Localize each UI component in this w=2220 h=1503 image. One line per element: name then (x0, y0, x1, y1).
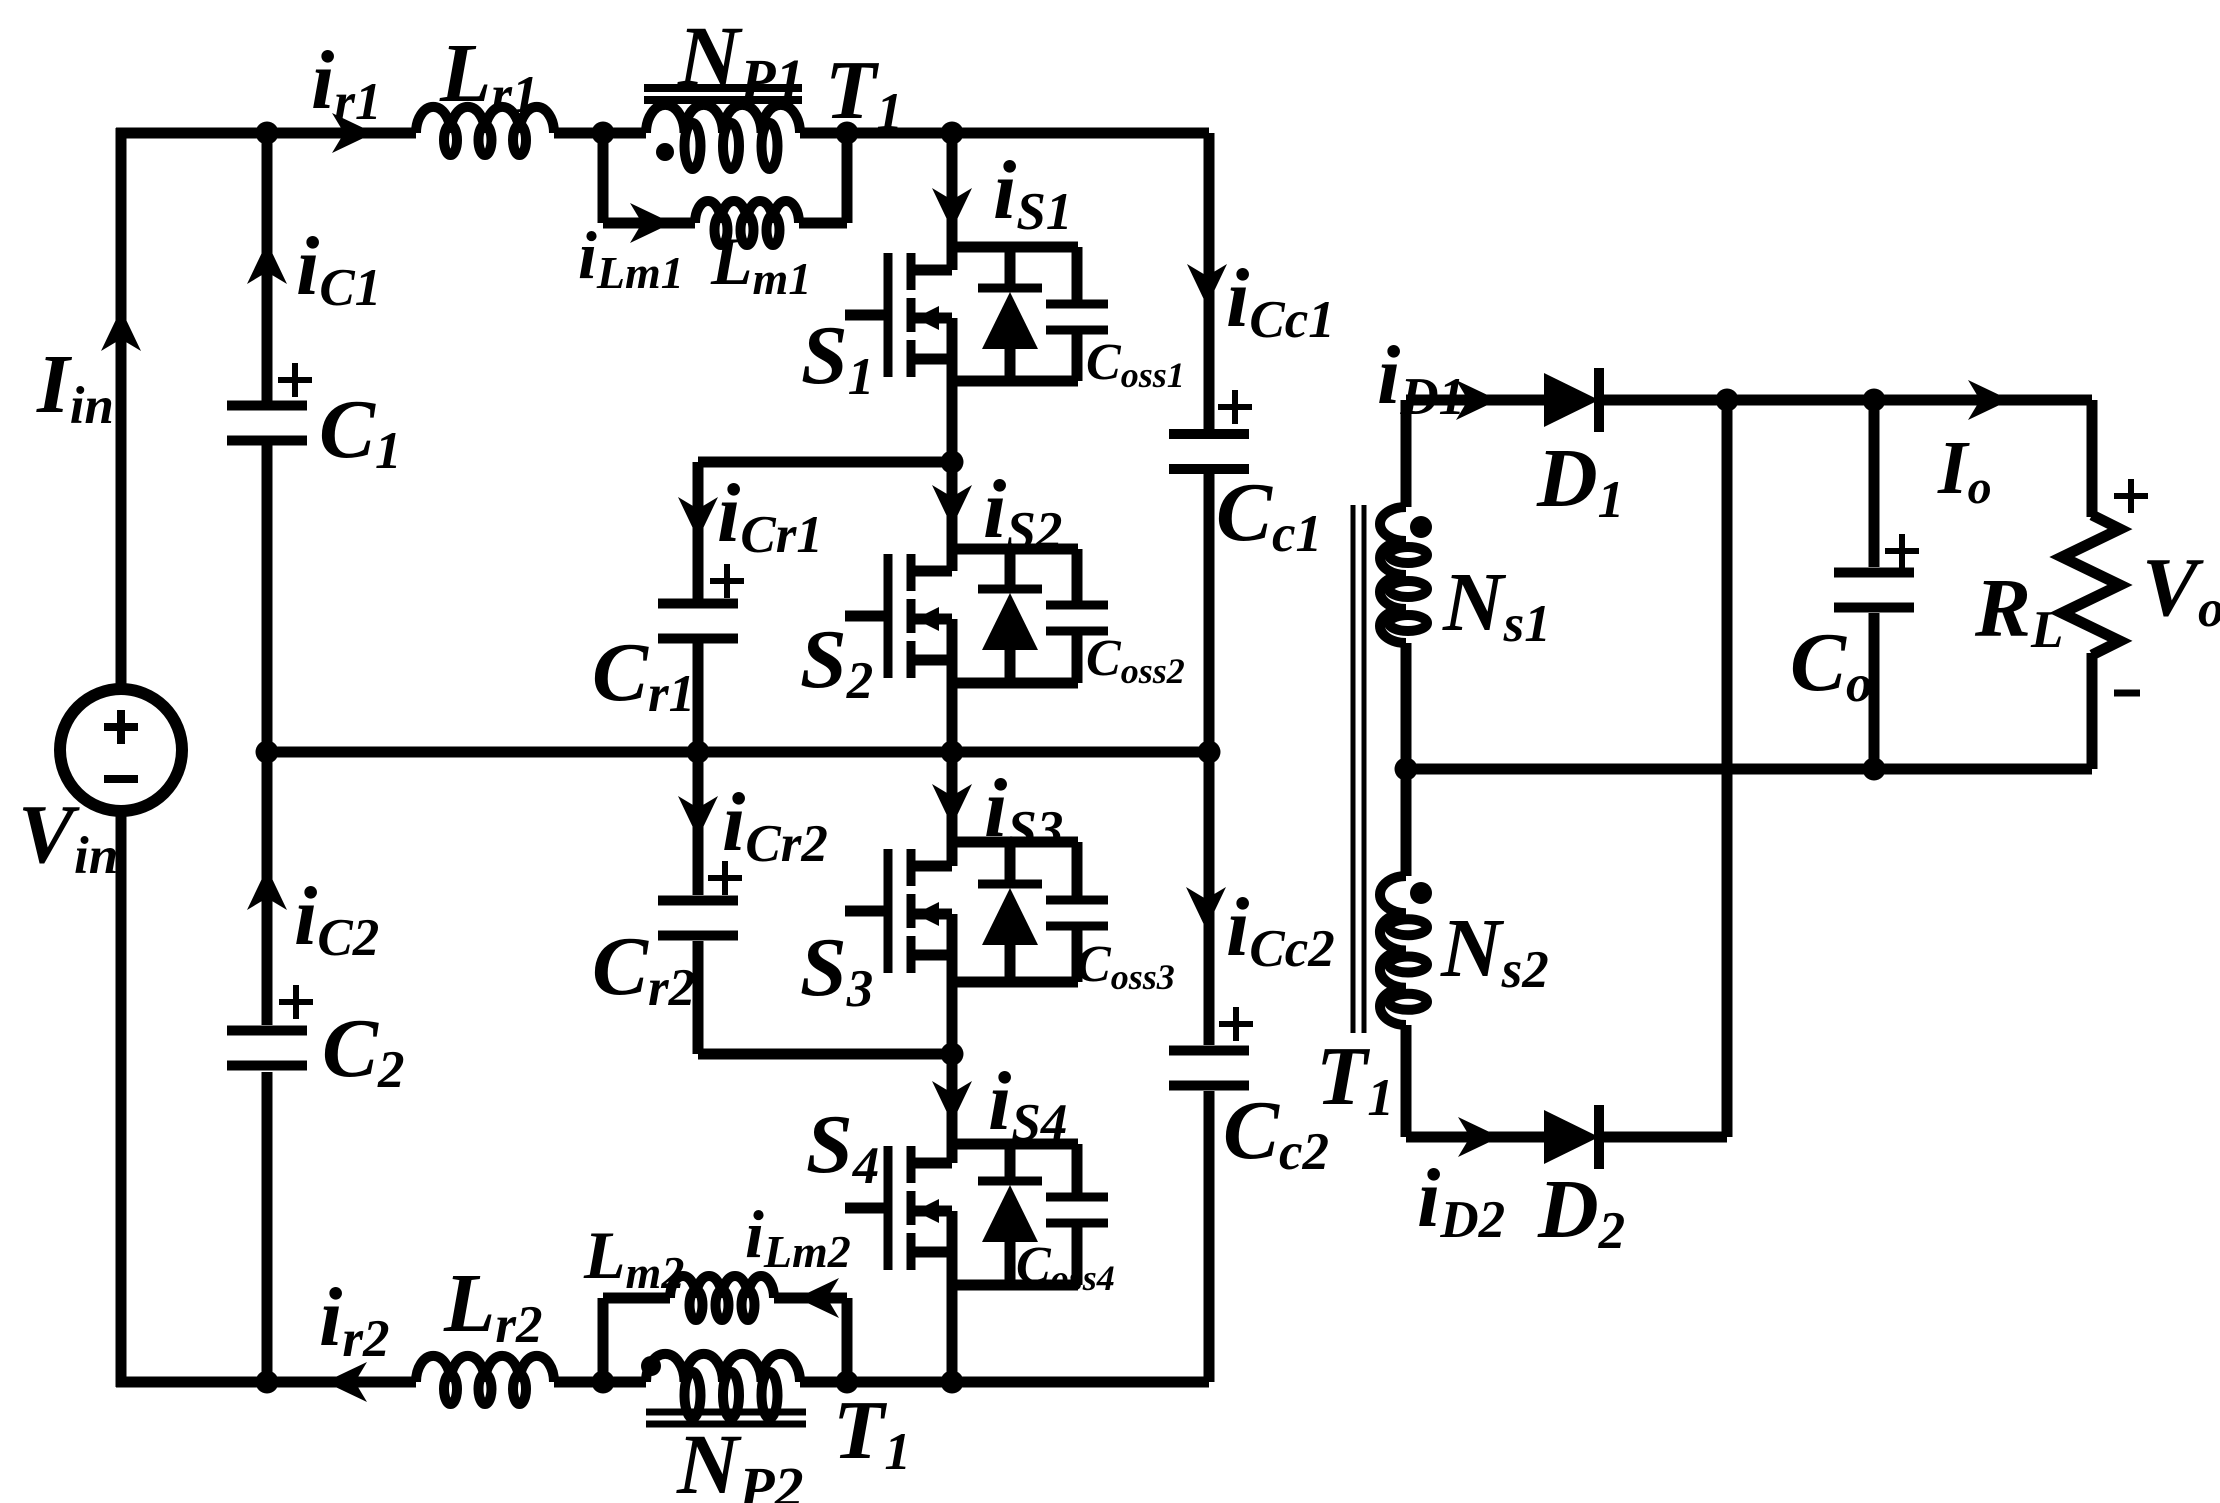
wire S4 drain lead (947, 1054, 958, 1163)
transformer secondary winding Ns1 (1380, 507, 1427, 643)
current arrow iS1 (932, 188, 972, 230)
transistor S4 (MOSFET) (845, 1146, 952, 1270)
label T1 top (825, 44, 903, 141)
current arrow iCr1 (678, 497, 718, 539)
node top-C1 (256, 122, 279, 145)
node mid-Cc (1198, 741, 1221, 764)
inductor Lm2 (670, 1276, 774, 1320)
node bottom-Lm2 right (836, 1371, 859, 1394)
transistor S3 (MOSFET) (845, 849, 952, 973)
capacitor Cc1 (1169, 390, 1252, 469)
wire Lm1 branch left horizontal (603, 218, 695, 229)
label ir2 (319, 1271, 389, 1368)
capacitor C1 (227, 363, 312, 441)
current arrow iCc2 (1186, 887, 1226, 929)
label C2 (322, 1002, 405, 1099)
node mid-C column (256, 741, 279, 764)
wire S3 cell top rail (952, 837, 1078, 848)
label iS1 (993, 144, 1072, 241)
label iCr2 (722, 776, 828, 873)
label iC1 (296, 220, 381, 317)
capacitor Cr1 (658, 564, 744, 639)
wire S1 cell top rail (952, 242, 1078, 253)
wire D1 cathode row (1600, 395, 2092, 406)
transformer T1 primary winding NP2 (646, 1354, 800, 1418)
diode D1 (1544, 368, 1599, 432)
wire Lm2 branch left vertical (598, 1298, 609, 1382)
wire output return rail (1406, 764, 2092, 775)
body diode of S2 (978, 549, 1042, 683)
label S3 (800, 921, 873, 1018)
transistor S1 (MOSFET) (845, 253, 952, 377)
wire S1 cell bottom rail (952, 376, 1078, 387)
current arrow Io (1968, 380, 2010, 420)
label Ns2 (1440, 902, 1549, 999)
label D1 (1536, 432, 1624, 529)
label Io (1937, 426, 1992, 514)
body diode of S3 (978, 842, 1042, 982)
current arrow Iin (101, 309, 141, 351)
label D2 (1537, 1163, 1625, 1260)
wire bottom rail left segment (116, 1377, 416, 1388)
label iCc1 (1226, 252, 1335, 349)
node Co top (1863, 389, 1886, 412)
capacitor Cc2 (1169, 1007, 1253, 1086)
wire Lm2 branch right horizontal (774, 1293, 847, 1304)
output polarity minus (2114, 690, 2140, 697)
current arrow iCr2 (678, 796, 718, 838)
label Cr2 (592, 920, 695, 1017)
wire S3 drain lead (947, 752, 958, 866)
wire Lm1 branch right horizontal (799, 218, 847, 229)
current arrow iC2 (247, 868, 287, 910)
wire Cc2 bottom lead (1204, 1091, 1215, 1382)
transformer NP2 phase dot (641, 1356, 661, 1376)
wire S2 source lead to midpoint (947, 619, 958, 752)
label S1 (801, 309, 874, 406)
wire D2 return vertical (1722, 400, 1733, 1137)
wire S4 source lead to bottom rail (947, 1211, 958, 1382)
label iD2 (1417, 1152, 1505, 1249)
label iS2 (983, 463, 1062, 560)
current arrow iLm1 (630, 203, 672, 243)
label Cc1 (1216, 466, 1322, 563)
capacitor Coss2 (1046, 549, 1108, 683)
transformer T1 primary winding NP1 (646, 105, 800, 169)
wire Cr2 bottom horizontal (698, 1049, 952, 1060)
label S4 (806, 1098, 879, 1195)
label Lr2 (443, 1257, 542, 1354)
label iCr1 (717, 467, 823, 564)
wire S2 drain lead (947, 462, 958, 571)
label Lm1 (710, 223, 811, 304)
wire S4 cell top rail (952, 1139, 1078, 1150)
label iS3 (984, 762, 1063, 859)
wire S2 cell top rail (952, 544, 1078, 555)
label Cr1 (592, 626, 695, 723)
label NP2 (676, 1416, 804, 1503)
voltage source Vin (60, 689, 182, 811)
node top-S column (941, 122, 964, 145)
wire D2 cathode row (1600, 1132, 1727, 1143)
transformer T1 core (top) (644, 88, 802, 100)
wire C2 bottom lead (262, 1072, 273, 1382)
wire bottom rail middle segment (554, 1377, 646, 1388)
wire Ns2 bottom lead (1401, 1025, 1412, 1137)
wire S4 cell bottom rail (952, 1280, 1078, 1291)
wire C1 top lead (262, 133, 273, 401)
wire Ns1 top lead (1401, 400, 1412, 507)
wire S1 drain lead (947, 133, 958, 270)
label iLm1 (578, 217, 684, 298)
current arrow iD1 (1456, 380, 1498, 420)
wire bottom rail right segment (800, 1377, 1209, 1388)
body diode of S1 (978, 247, 1042, 381)
wire Lm2 branch right vertical (842, 1298, 853, 1382)
label iCc2 (1226, 881, 1335, 978)
current arrow iD2 (1458, 1117, 1500, 1157)
node top-Lm1 right (836, 122, 859, 145)
wire Cr1-to-Cr2 segment (693, 641, 704, 895)
capacitor Coss4 (1046, 1144, 1108, 1285)
capacitor Coss1 (1046, 247, 1108, 381)
output polarity plus (2114, 479, 2148, 513)
label Iin (36, 338, 114, 435)
wire D2 anode row (1406, 1132, 1544, 1143)
wire S3 source lead to node B (947, 914, 958, 1054)
label Coss1 (1086, 334, 1185, 395)
node A (S1-S2 / Cr1) (941, 451, 964, 474)
capacitor C2 (227, 985, 313, 1066)
wire D1 anode row (1406, 395, 1544, 406)
resistor RL (2062, 515, 2120, 655)
label C1 (319, 383, 402, 480)
current arrow iS3 (932, 784, 972, 826)
label NP1 (677, 8, 805, 112)
wire middle rail (267, 747, 1209, 758)
current arrow iC1 (247, 242, 287, 284)
node Co bottom (1863, 758, 1886, 781)
label Cc2 (1223, 1084, 1329, 1181)
node top-Lm1 left (592, 122, 615, 145)
wire Lm1 branch left vertical (598, 133, 609, 223)
capacitor Coss3 (1046, 842, 1108, 982)
label Coss2 (1086, 630, 1185, 691)
node mid-S column (941, 741, 964, 764)
label Lm2 (583, 1217, 684, 1298)
current arrow ir2 (325, 1362, 367, 1402)
label iD1 (1377, 329, 1465, 426)
node D2 return / output+ (1716, 389, 1739, 412)
label Coss3 (1076, 936, 1175, 997)
transformer Ns2 phase dot (1410, 882, 1432, 904)
wire Co bottom lead (1869, 613, 1880, 769)
transformer T1 core (secondary) (1353, 505, 1364, 1033)
label iC2 (294, 870, 379, 967)
current arrow iS2 (932, 485, 972, 527)
current arrow ir1 (332, 113, 374, 153)
wire top rail middle segment (554, 128, 646, 139)
wire RL bottom lead (2087, 653, 2098, 769)
label Ns1 (1442, 556, 1551, 653)
label iS4 (988, 1055, 1067, 1152)
wire S1 source lead to node A (947, 318, 958, 462)
node bottom-C2 (256, 1371, 279, 1394)
wire Cc1 top lead (1204, 133, 1215, 430)
transistor S2 (MOSFET) (845, 554, 952, 678)
wire C1-to-C2 column segment (262, 445, 273, 1025)
transformer T1 core (bottom) (646, 1412, 806, 1424)
wire Cr1 top lead (693, 462, 704, 601)
label T1 bottom (833, 1384, 911, 1481)
transformer secondary winding Ns2 (1380, 876, 1427, 1025)
inductor Lr1 (416, 107, 554, 155)
wire Cr2 bottom lead (693, 941, 704, 1054)
node secondary centre tap (1395, 758, 1418, 781)
label Vo (2142, 541, 2220, 638)
wire Lm1 branch right vertical (842, 133, 853, 223)
transformer Ns1 phase dot (1410, 516, 1432, 538)
wire left column upper (Vin top lead) (116, 128, 127, 689)
body diode of S4 (978, 1144, 1042, 1285)
label ir1 (311, 34, 381, 131)
wire S2 cell bottom rail (952, 678, 1078, 689)
wire Ns1 bottom lead (1401, 643, 1412, 769)
capacitor Co (1834, 534, 1919, 608)
inductor Lm1 (695, 201, 799, 245)
capacitor Cr2 (658, 861, 742, 936)
wire S3 cell bottom rail (952, 977, 1078, 988)
inductor Lr2 (416, 1356, 554, 1404)
transformer NP1 phase dot (656, 143, 674, 161)
label iLm2 (745, 1196, 851, 1277)
wire top rail left segment (116, 128, 416, 139)
current arrow iLm2 (797, 1278, 839, 1318)
wire Lm2 branch left horizontal (603, 1293, 670, 1304)
label RL (1974, 562, 2063, 659)
label S2 (800, 613, 873, 710)
wire Cc1-to-Cc2 segment (1204, 473, 1215, 1045)
wire left column lower (Vin bottom lead) (116, 811, 127, 1387)
label T1 secondary (1316, 1030, 1394, 1127)
wire RL top lead (2087, 400, 2098, 517)
wire Ns2 top lead (1401, 769, 1412, 876)
label Vin (18, 788, 118, 885)
current arrow iS4 (932, 1081, 972, 1123)
wire Cr1 top horizontal (698, 457, 952, 468)
node bottom-S column (941, 1371, 964, 1394)
wire Co top lead (1869, 400, 1880, 567)
node bottom-Lm2 left (592, 1371, 615, 1394)
wire top rail right segment (800, 128, 1209, 139)
label Co (1790, 616, 1873, 713)
node B (S3-S4 / Cr2) (941, 1043, 964, 1066)
label Lr1 (439, 27, 538, 124)
node mid-Cr (687, 741, 710, 764)
label Coss4 (1016, 1237, 1115, 1298)
diode D2 (1544, 1105, 1599, 1169)
current arrow iCc1 (1187, 264, 1227, 306)
